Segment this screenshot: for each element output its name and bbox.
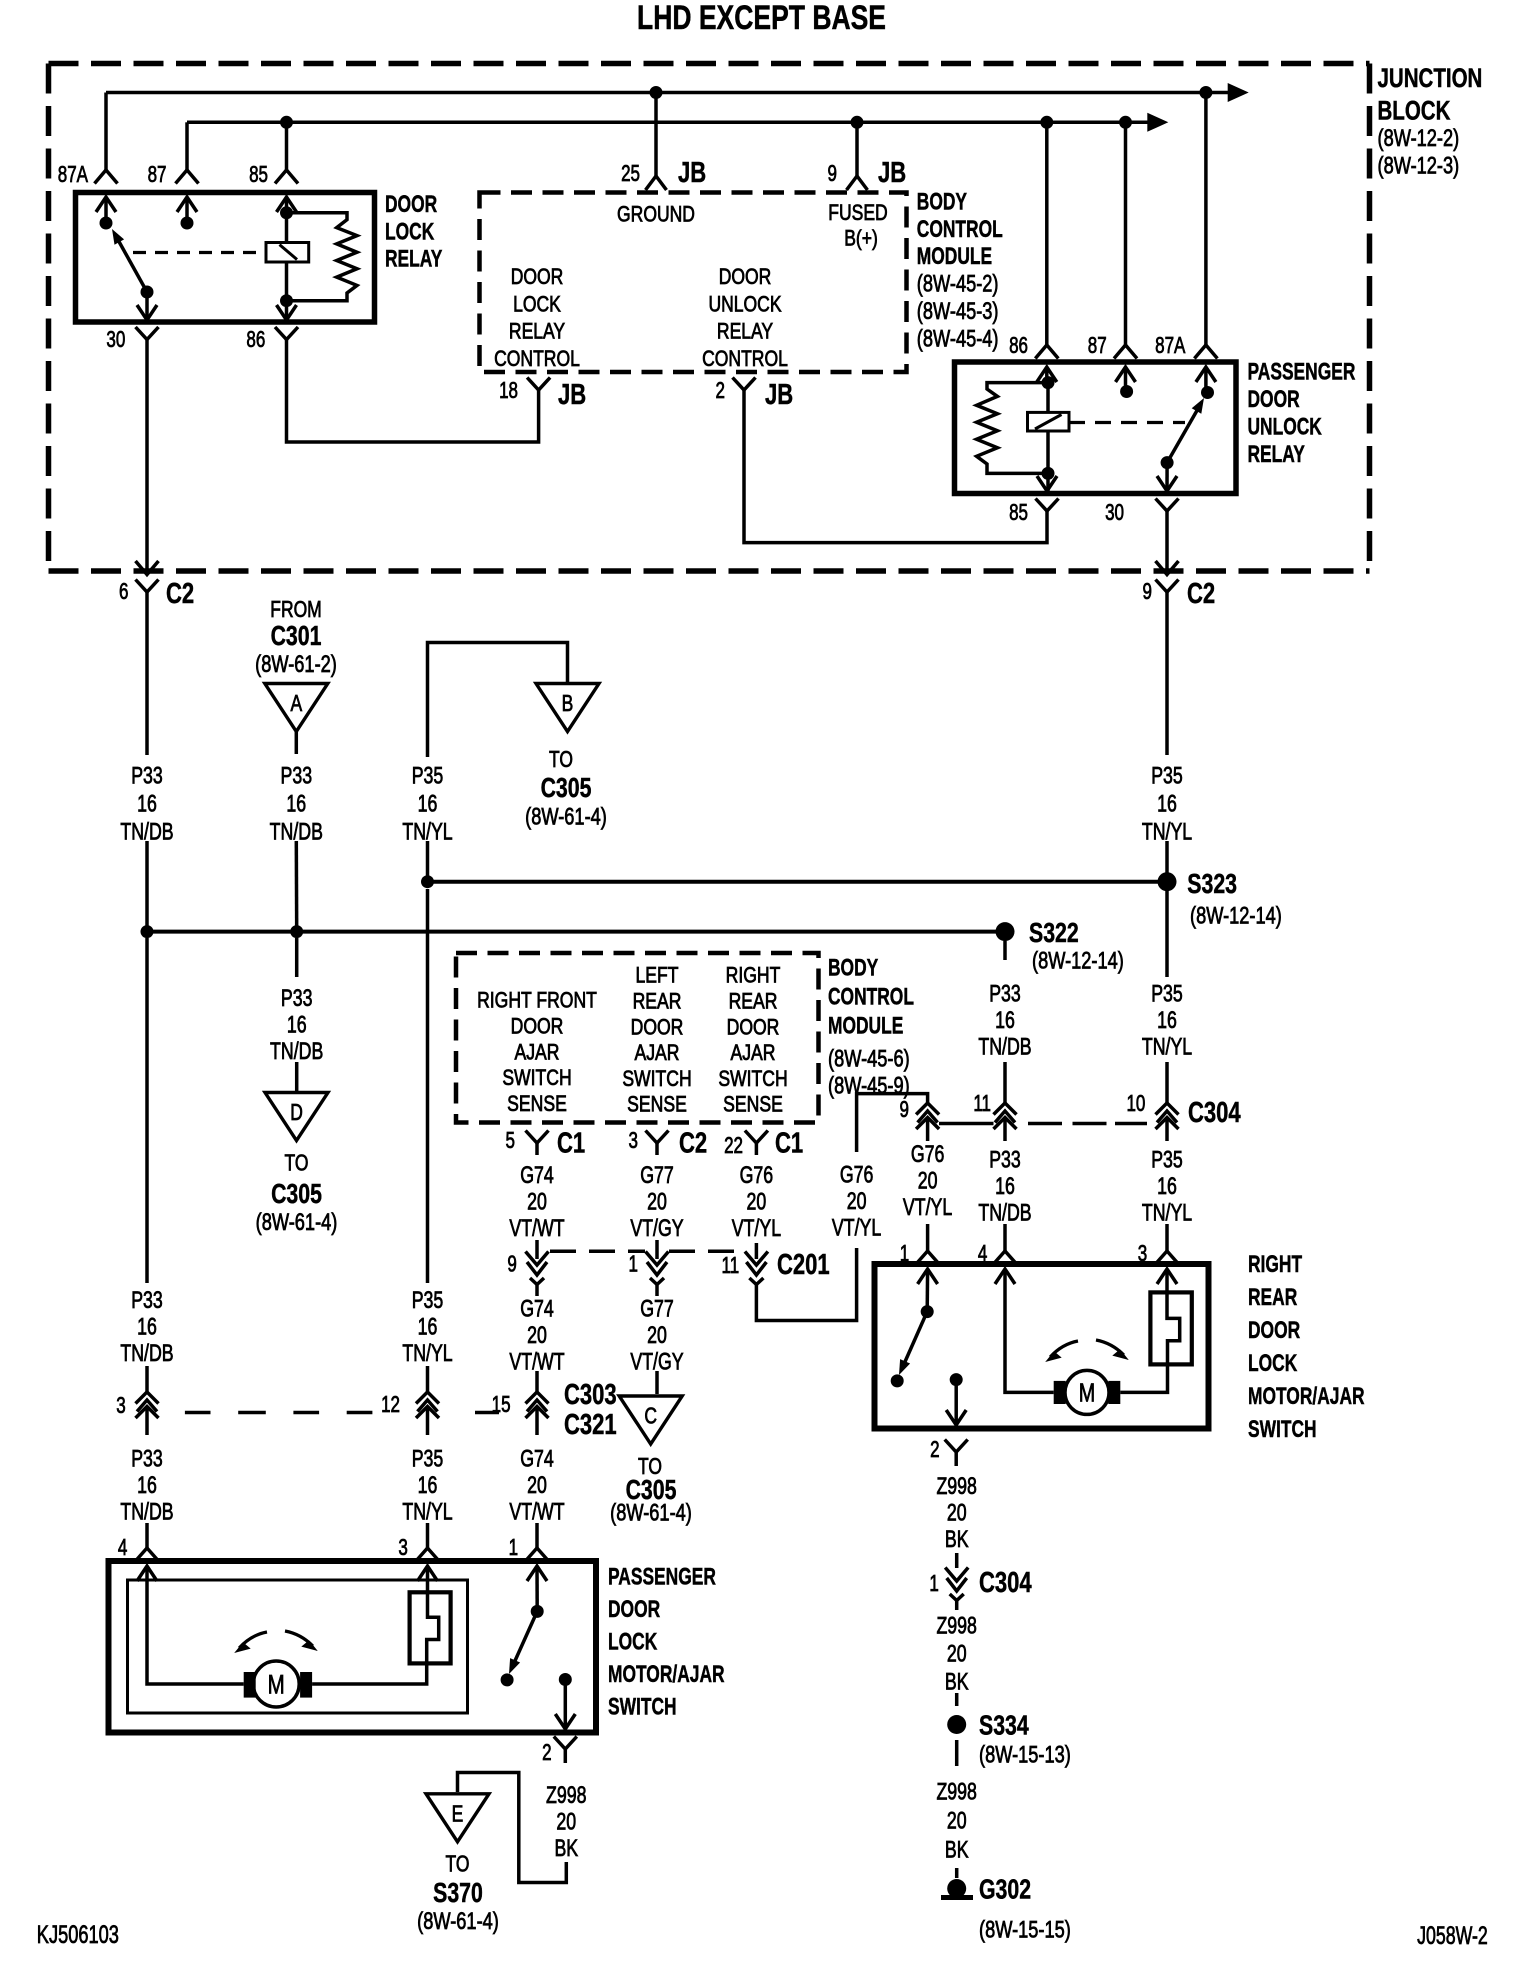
svg-text:BODY: BODY: [917, 188, 967, 216]
svg-text:85: 85: [249, 163, 268, 188]
wire C303-3 to passenger box pin 4: [145, 1426, 149, 1435]
svg-text:SWITCH: SWITCH: [502, 1066, 571, 1090]
svg-text:4: 4: [978, 1242, 987, 1267]
wire JB 2 to passenger relay 85: [744, 404, 1047, 543]
svg-text:(8W-45-6): (8W-45-6): [828, 1045, 910, 1072]
connector C303 pin 3: [136, 1392, 159, 1404]
wire stub to C201 pin 1: [655, 1240, 659, 1259]
svg-text:C2: C2: [166, 578, 194, 610]
svg-text:6: 6: [119, 580, 128, 605]
svg-text:30: 30: [106, 328, 125, 353]
pin 85 connector passenger relay: [1046, 473, 1050, 491]
connector C1 pin 22: [745, 1131, 768, 1144]
wire stub to S334: [955, 1693, 959, 1706]
wire triangle B run to C303 pin 12: [426, 889, 430, 1283]
wire S323 to C304 pin 10: [1165, 889, 1169, 977]
wire to triangle B: [428, 643, 568, 758]
svg-text:C1: C1: [775, 1128, 803, 1160]
pin 4 connector passenger box: [136, 1548, 159, 1561]
svg-text:B(+): B(+): [844, 227, 878, 252]
svg-text:DOOR: DOOR: [1248, 1316, 1300, 1344]
node bus junction at 25 JB: [650, 86, 663, 99]
svg-text:JB: JB: [878, 157, 906, 189]
svg-text:20: 20: [527, 1189, 547, 1215]
connector C304 pin 10: [1156, 1103, 1179, 1115]
relay coil door lock: [266, 243, 309, 263]
svg-text:(8W-61-4): (8W-61-4): [610, 1499, 692, 1526]
svg-text:LOCK: LOCK: [385, 218, 435, 246]
svg-text:1: 1: [929, 1572, 938, 1597]
svg-text:(8W-12-14): (8W-12-14): [1190, 902, 1282, 929]
splice S322: [996, 922, 1015, 941]
svg-text:LHD EXCEPT BASE: LHD EXCEPT BASE: [637, 0, 886, 37]
ajar switch right rear contact: [891, 1374, 904, 1387]
pin 2 connector right rear box: [954, 1380, 958, 1425]
wire passenger relay 30 down to C2-9: [1165, 524, 1169, 575]
svg-text:DOOR: DOOR: [608, 1595, 660, 1623]
connector JB pin 9: [847, 176, 868, 190]
svg-text:20: 20: [947, 1808, 967, 1834]
svg-text:TN/DB: TN/DB: [270, 1038, 323, 1064]
svg-text:DOOR: DOOR: [631, 1016, 684, 1040]
svg-text:(8W-15-13): (8W-15-13): [979, 1741, 1071, 1768]
wire drop to passenger relay 86: [1045, 122, 1049, 345]
resistor passenger relay: [977, 383, 1048, 474]
motor rotation arrows passenger: [239, 1632, 267, 1648]
node passenger relay 30 common: [1161, 456, 1174, 469]
svg-text:SENSE: SENSE: [723, 1093, 783, 1117]
node bus junction at 85: [280, 116, 293, 129]
svg-text:20: 20: [847, 1189, 867, 1215]
wire stub to C201 pin 9: [535, 1240, 539, 1259]
svg-text:JB: JB: [765, 379, 793, 411]
svg-text:10: 10: [1126, 1092, 1145, 1117]
svg-text:87: 87: [148, 163, 167, 188]
svg-text:C304: C304: [1188, 1097, 1241, 1129]
svg-text:S323: S323: [1187, 868, 1237, 900]
svg-text:(8W-45-3): (8W-45-3): [917, 298, 999, 325]
ajar switch passenger arm: [514, 1611, 537, 1663]
svg-text:RIGHT: RIGHT: [726, 964, 781, 988]
wire pin 3 through actuator to motor right rear: [1120, 1269, 1179, 1392]
svg-text:C201: C201: [777, 1249, 830, 1281]
svg-text:9: 9: [828, 162, 837, 187]
connector C2 pin 9: [1156, 580, 1179, 593]
svg-text:PASSENGER: PASSENGER: [1248, 358, 1356, 386]
pin 87A connector passenger relay: [1194, 345, 1217, 359]
svg-text:S334: S334: [979, 1710, 1029, 1742]
svg-text:SWITCH: SWITCH: [718, 1067, 787, 1091]
svg-text:20: 20: [647, 1189, 667, 1215]
svg-text:TO: TO: [446, 1852, 470, 1877]
svg-text:(8W-61-2): (8W-61-2): [255, 651, 337, 678]
ajar switch right rear pivot: [925, 1269, 929, 1312]
svg-text:C: C: [644, 1404, 657, 1429]
svg-text:16: 16: [418, 791, 438, 817]
node passenger relay coil bottom: [1042, 467, 1055, 480]
svg-text:SENSE: SENSE: [627, 1093, 687, 1117]
connector JB pin 2: [733, 378, 756, 391]
svg-text:Z998: Z998: [936, 1473, 976, 1499]
svg-text:16: 16: [1157, 1173, 1177, 1199]
wire to C304 pin 11: [1003, 1062, 1007, 1103]
wire from triangle A down: [295, 732, 299, 755]
wire triangle B branch to S323: [426, 841, 430, 882]
bus S323 horizontal wire: [428, 880, 1168, 884]
wire C304-11 to right rear box pin 4: [1003, 1137, 1007, 1141]
svg-text:C2: C2: [1187, 578, 1215, 610]
svg-text:BK: BK: [554, 1835, 578, 1861]
svg-text:VT/GY: VT/GY: [630, 1215, 683, 1241]
svg-text:2: 2: [542, 1741, 551, 1766]
svg-text:UNLOCK: UNLOCK: [1248, 412, 1323, 440]
wire C303-15 to passenger box pin 1: [535, 1426, 539, 1435]
splice S323: [1158, 872, 1177, 891]
wire C201-1 to triangle C: [655, 1294, 659, 1296]
svg-text:P35: P35: [412, 1446, 444, 1472]
svg-text:P33: P33: [989, 981, 1021, 1007]
wire C201-9 to C303-15: [535, 1294, 539, 1296]
svg-text:REAR: REAR: [729, 990, 778, 1014]
pin 85 connector door lock relay: [275, 170, 298, 184]
svg-text:RIGHT: RIGHT: [1248, 1250, 1302, 1278]
connector JB pin 25: [646, 176, 667, 190]
svg-text:3: 3: [1138, 1242, 1147, 1267]
svg-text:(8W-61-4): (8W-61-4): [256, 1209, 338, 1236]
svg-text:1: 1: [509, 1536, 518, 1561]
node bus junction at 87 passenger relay: [1119, 116, 1132, 129]
svg-text:JB: JB: [558, 379, 586, 411]
wire stub to C201 pin 11: [755, 1243, 759, 1259]
svg-text:20: 20: [947, 1500, 967, 1526]
body control module upper dashed box: [480, 193, 907, 373]
svg-text:TN/DB: TN/DB: [120, 1340, 173, 1366]
svg-text:A: A: [290, 692, 302, 717]
svg-text:MOTOR/AJAR: MOTOR/AJAR: [1248, 1382, 1365, 1410]
svg-text:C321: C321: [564, 1409, 617, 1441]
svg-text:20: 20: [647, 1322, 667, 1348]
connector C304 pin 1: [945, 1568, 968, 1582]
connector C2 pin 6: [136, 580, 159, 593]
svg-text:G74: G74: [520, 1446, 554, 1472]
wire C303-12 to passenger box pin 3: [426, 1426, 430, 1435]
svg-text:16: 16: [995, 1007, 1015, 1033]
svg-text:G302: G302: [979, 1874, 1031, 1906]
ajar switch right rear pin2 contact: [950, 1373, 963, 1386]
svg-text:LOCK: LOCK: [513, 292, 561, 317]
wire C304-9 to right rear box pin 1: [926, 1137, 930, 1141]
svg-text:JUNCTION: JUNCTION: [1378, 63, 1483, 93]
svg-text:11: 11: [973, 1092, 991, 1117]
svg-text:C1: C1: [557, 1128, 585, 1160]
pin 3 connector passenger box: [416, 1548, 439, 1561]
pin 1 connector right rear box: [916, 1251, 939, 1264]
wire S334 down: [955, 1740, 959, 1766]
svg-text:SENSE: SENSE: [507, 1092, 567, 1116]
ajar switch right rear arm: [904, 1312, 927, 1364]
ajar switch passenger pivot: [535, 1566, 539, 1611]
wire C2-6 to S322 upper: [145, 605, 149, 755]
wire triangle A to S322: [295, 841, 299, 932]
connector C201 pin 9: [526, 1252, 549, 1266]
svg-text:VT/YL: VT/YL: [903, 1195, 953, 1221]
svg-text:FROM: FROM: [270, 598, 321, 623]
svg-text:TN/DB: TN/DB: [120, 1499, 173, 1525]
svg-text:(8W-12-2): (8W-12-2): [1378, 125, 1460, 152]
ground G302: [947, 1879, 966, 1898]
svg-text:P35: P35: [1151, 763, 1183, 789]
svg-text:P35: P35: [412, 763, 444, 789]
node bus junction at 87A passenger relay: [1199, 86, 1212, 99]
motor M1 passenger door lock: [253, 1661, 299, 1707]
splice S334: [947, 1715, 966, 1734]
off-page triangle D: [265, 1093, 328, 1141]
off-page triangle C: [619, 1396, 682, 1444]
svg-text:C303: C303: [564, 1379, 617, 1411]
svg-text:16: 16: [418, 1472, 438, 1498]
svg-text:P33: P33: [131, 1287, 163, 1313]
svg-text:UNLOCK: UNLOCK: [708, 292, 782, 317]
svg-text:S322: S322: [1029, 917, 1079, 949]
connector JB pin 18: [527, 378, 550, 391]
svg-text:VT/YL: VT/YL: [732, 1215, 782, 1241]
svg-text:REAR: REAR: [633, 990, 682, 1014]
motor assembly inner outline: [128, 1580, 468, 1713]
svg-text:P33: P33: [989, 1147, 1021, 1173]
wire pin 3 through actuator to motor: [312, 1566, 439, 1684]
connector C1 pin 5: [526, 1131, 549, 1144]
svg-text:3: 3: [116, 1394, 125, 1419]
svg-text:(8W-61-4): (8W-61-4): [417, 1908, 499, 1935]
wire to C304 pin 1: [955, 1553, 959, 1568]
resistor door lock relay: [287, 213, 358, 301]
svg-text:CONTROL: CONTROL: [494, 347, 580, 372]
relay coil passenger: [1028, 412, 1070, 431]
svg-text:TN/YL: TN/YL: [402, 1340, 453, 1366]
pin 87 connector passenger relay: [1114, 345, 1137, 359]
svg-text:TO: TO: [549, 748, 573, 773]
pin 3 connector right rear box: [1156, 1251, 1179, 1264]
wire C304-10 to right rear box pin 3: [1165, 1137, 1169, 1141]
svg-text:P33: P33: [281, 763, 313, 789]
svg-text:SWITCH: SWITCH: [608, 1693, 677, 1721]
svg-text:20: 20: [747, 1189, 767, 1215]
node 85 coil top: [280, 206, 293, 219]
svg-text:RIGHT FRONT: RIGHT FRONT: [477, 989, 597, 1013]
svg-text:(8W-61-4): (8W-61-4): [525, 803, 607, 830]
svg-text:G76: G76: [740, 1162, 774, 1188]
C304 dashed link 11 to 10: [1028, 1122, 1062, 1126]
node 86 coil bottom: [280, 294, 293, 307]
svg-text:C301: C301: [271, 620, 322, 652]
svg-text:16: 16: [995, 1173, 1015, 1199]
wire drop to junction block 25: [654, 93, 658, 177]
svg-text:5: 5: [506, 1129, 515, 1154]
svg-text:C305: C305: [271, 1178, 322, 1210]
body control module lower dashed box: [456, 953, 819, 1123]
svg-text:18: 18: [499, 379, 518, 404]
svg-text:P35: P35: [1151, 981, 1183, 1007]
svg-text:MODULE: MODULE: [828, 1012, 903, 1040]
svg-text:E: E: [452, 1802, 464, 1827]
node junction S322 mid: [290, 925, 303, 938]
svg-text:SWITCH: SWITCH: [622, 1067, 691, 1091]
svg-text:86: 86: [1009, 334, 1028, 359]
svg-text:LEFT: LEFT: [636, 964, 679, 988]
pin 30 connector door lock relay: [145, 292, 149, 320]
svg-text:RELAY: RELAY: [509, 320, 565, 345]
node passenger relay coil top: [1042, 376, 1055, 389]
svg-text:P35: P35: [412, 1287, 444, 1313]
svg-text:G76: G76: [840, 1162, 874, 1188]
wire bus B(+) upper: [106, 91, 1229, 95]
svg-text:DOOR: DOOR: [727, 1016, 780, 1040]
svg-text:87: 87: [1088, 334, 1107, 359]
svg-text:TN/YL: TN/YL: [1142, 1034, 1193, 1060]
C201 dashed link 1 to 11: [669, 1250, 745, 1254]
off-page triangle E: [426, 1794, 489, 1842]
svg-text:KJ506103: KJ506103: [37, 1920, 119, 1949]
svg-text:CONTROL: CONTROL: [828, 983, 914, 1011]
svg-text:16: 16: [1157, 791, 1177, 817]
svg-text:9: 9: [507, 1252, 516, 1277]
svg-text:RELAY: RELAY: [385, 245, 442, 273]
off-page triangle B: [536, 684, 599, 732]
node 87 contact: [181, 217, 194, 230]
wire C201-11 to riser: [756, 1248, 856, 1321]
svg-text:16: 16: [287, 1012, 307, 1038]
svg-text:LOCK: LOCK: [1248, 1349, 1298, 1377]
svg-text:DOOR: DOOR: [511, 265, 564, 290]
node 87A contact: [100, 217, 113, 230]
node bus junction at 86 passenger relay: [1040, 116, 1053, 129]
svg-text:DOOR: DOOR: [511, 1015, 564, 1039]
svg-text:G76: G76: [911, 1142, 945, 1168]
wire drop to junction block 9: [855, 122, 859, 176]
svg-text:3: 3: [398, 1536, 407, 1561]
wire drop to door lock relay 87: [185, 122, 189, 170]
svg-text:PASSENGER: PASSENGER: [608, 1563, 716, 1591]
svg-text:4: 4: [118, 1536, 127, 1561]
svg-text:DOOR: DOOR: [385, 190, 437, 218]
svg-text:25: 25: [621, 162, 640, 187]
ajar switch passenger contact: [501, 1673, 514, 1686]
connector C201 pin 1: [646, 1252, 669, 1266]
off-page triangle A: [265, 684, 328, 732]
svg-text:BK: BK: [945, 1526, 969, 1552]
wire drop to door lock relay 85: [285, 122, 289, 170]
door lock actuator symbol right rear: [1150, 1292, 1191, 1364]
wire bus B(+) lower: [187, 121, 1148, 125]
connector C2 pin 3: [646, 1131, 669, 1144]
connector C303 pin 12: [416, 1392, 439, 1404]
svg-text:87A: 87A: [58, 163, 89, 188]
wire pin 4 to motor right rear: [1005, 1269, 1054, 1392]
pin 4 connector right rear box: [994, 1251, 1017, 1264]
svg-text:1: 1: [629, 1252, 638, 1277]
wire passenger pin 2 to triangle E: [458, 1773, 567, 1883]
svg-text:(8W-15-15): (8W-15-15): [979, 1916, 1071, 1943]
svg-text:AJAR: AJAR: [731, 1041, 776, 1065]
svg-text:12: 12: [381, 1393, 400, 1418]
switch arm passenger relay: [1167, 407, 1199, 463]
wire door lock relay 30 down to C2-6: [145, 353, 149, 575]
svg-text:S370: S370: [433, 1877, 483, 1909]
wire S322 to triangle D lower: [295, 1062, 299, 1091]
svg-text:11: 11: [722, 1254, 740, 1279]
pin 2 connector passenger box: [564, 1680, 568, 1730]
relay K1 door lock relay box: [76, 193, 375, 323]
wire S322 to triangle D upper: [295, 938, 299, 977]
wire drop to passenger relay 87: [1124, 122, 1128, 345]
svg-text:(8W-45-2): (8W-45-2): [917, 270, 999, 297]
svg-text:87A: 87A: [1155, 334, 1186, 359]
pin 1 connector passenger box: [526, 1548, 549, 1561]
C303 dashed link 12 to 15: [475, 1411, 499, 1415]
svg-text:20: 20: [947, 1641, 967, 1667]
svg-text:G74: G74: [520, 1162, 554, 1188]
svg-text:16: 16: [137, 1314, 157, 1340]
wire C2-6 run to C303 pin 3: [145, 938, 149, 1283]
svg-text:Z998: Z998: [936, 1613, 976, 1639]
svg-text:20: 20: [527, 1322, 547, 1348]
C201 dashed link 9 to 1: [550, 1250, 645, 1254]
svg-text:22: 22: [724, 1134, 743, 1159]
svg-text:Z998: Z998: [546, 1782, 586, 1808]
svg-text:16: 16: [137, 1472, 157, 1498]
connector C201 pin 11: [745, 1252, 768, 1266]
svg-text:C305: C305: [541, 772, 592, 804]
svg-text:2: 2: [716, 379, 725, 404]
connector C304 pin 9: [916, 1103, 939, 1115]
svg-text:3: 3: [629, 1129, 638, 1154]
svg-text:2: 2: [930, 1438, 939, 1463]
C304 link 9 to 11: [939, 1122, 994, 1126]
svg-text:CONTROL: CONTROL: [702, 347, 788, 372]
svg-text:16: 16: [286, 791, 306, 817]
wire S322 splice stub down: [1003, 941, 1007, 960]
motor M2 right rear door lock: [1065, 1370, 1109, 1414]
svg-text:C304: C304: [979, 1567, 1032, 1599]
svg-text:TN/YL: TN/YL: [1142, 1200, 1193, 1226]
passenger door lock motor ajar switch box: [109, 1561, 597, 1733]
connector C303 pin 15: [526, 1392, 549, 1404]
bus S322 horizontal wire: [147, 930, 1005, 934]
svg-text:TN/DB: TN/DB: [978, 1034, 1031, 1060]
svg-text:TN/YL: TN/YL: [402, 1499, 453, 1525]
pin 30 connector passenger relay: [1165, 463, 1169, 491]
svg-text:16: 16: [137, 791, 157, 817]
svg-text:TN/DB: TN/DB: [978, 1200, 1031, 1226]
svg-text:SWITCH: SWITCH: [1248, 1415, 1317, 1443]
svg-text:BLOCK: BLOCK: [1378, 96, 1452, 126]
svg-text:CONTROL: CONTROL: [917, 215, 1003, 243]
switch arm door lock relay: [117, 238, 147, 292]
svg-text:J058W-2: J058W-2: [1417, 1921, 1488, 1950]
svg-text:20: 20: [556, 1809, 576, 1835]
svg-text:Z998: Z998: [936, 1779, 976, 1805]
svg-text:BK: BK: [945, 1837, 969, 1863]
motor rotation arrows right rear: [1050, 1341, 1078, 1357]
pin 87A connector door lock relay: [95, 170, 118, 184]
svg-text:20: 20: [918, 1168, 938, 1194]
svg-text:RELAY: RELAY: [717, 320, 773, 345]
node 30 common: [141, 286, 154, 299]
pin 86 connector door lock relay: [285, 301, 289, 320]
relay actuation dashed link passenger: [1069, 421, 1185, 424]
svg-text:1: 1: [900, 1242, 909, 1267]
svg-text:GROUND: GROUND: [617, 202, 695, 227]
